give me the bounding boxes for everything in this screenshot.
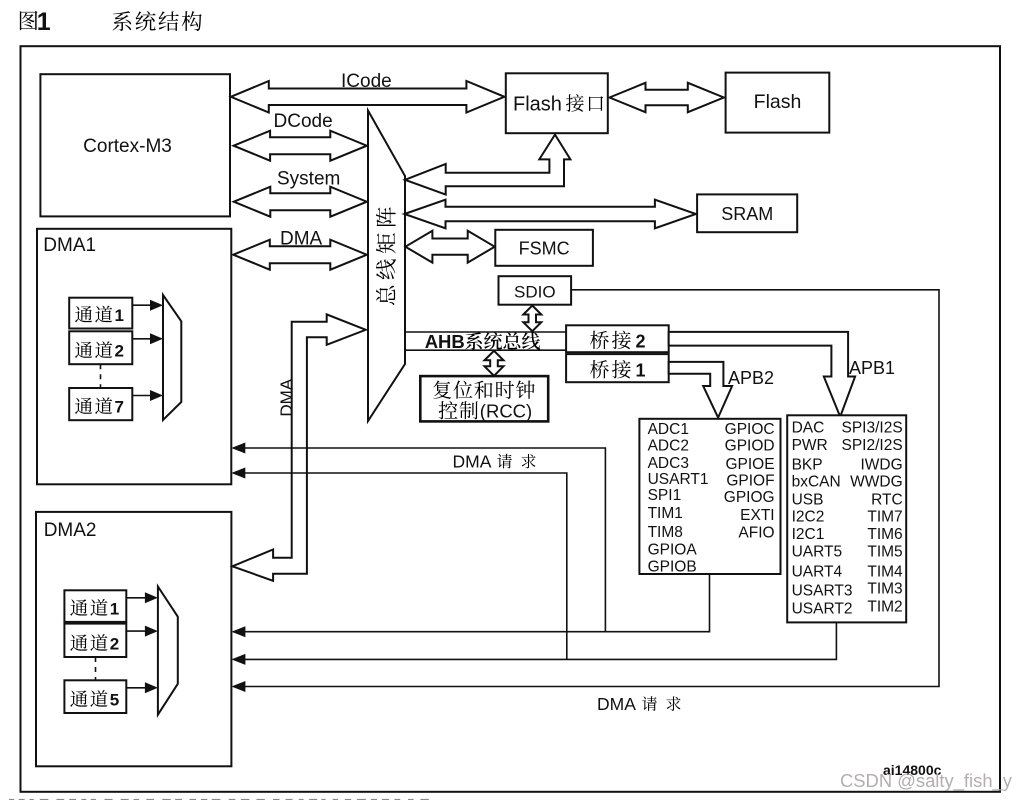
svg-text:DCode: DCode: [274, 111, 333, 132]
arrowhead DMA2 request2: [231, 654, 245, 665]
svg-text:GPIOB: GPIOB: [648, 559, 697, 576]
DCode bus arrow: [234, 131, 367, 161]
svg-text:PWR: PWR: [792, 437, 828, 454]
svg-text:APB2: APB2: [728, 368, 774, 388]
RCC vertical double arrow: [485, 351, 504, 376]
svg-text:5: 5: [110, 691, 119, 710]
wire AHB band top: [405, 331, 566, 333]
junction wire to DMA1 request2: [234, 473, 567, 659]
svg-text:UART4: UART4: [792, 564, 843, 581]
svg-text:TIM7: TIM7: [867, 509, 902, 526]
System bus arrow: [234, 187, 367, 217]
svg-text:DAC: DAC: [792, 420, 825, 437]
svg-text:USB: USB: [792, 492, 824, 509]
svg-text:7: 7: [115, 398, 124, 417]
Flash interface to Flash arrow: [610, 83, 724, 112]
arrow 通道5 to mux (DMA2): [126, 687, 147, 689]
ICode bus arrow: [231, 81, 505, 113]
box DMA2: [36, 512, 231, 766]
arrow 通道2 to mux (DMA2): [126, 630, 147, 632]
svg-text:USART2: USART2: [792, 600, 853, 617]
svg-text:GPIOE: GPIOE: [725, 456, 774, 473]
svg-text:CSDN @salty_fish_y: CSDN @salty_fish_y: [840, 770, 1013, 792]
DMA bus arrow DMA1: [233, 240, 366, 270]
svg-text:1: 1: [110, 599, 119, 618]
svg-text:Cortex-M3: Cortex-M3: [83, 136, 172, 157]
cropped caption marks at bottom: [9, 799, 14, 800]
FSMC bus arrow: [405, 231, 494, 263]
svg-text:FSMC: FSMC: [519, 239, 570, 259]
wire SDIO to right rail: [243, 290, 939, 687]
svg-text:2: 2: [110, 635, 119, 654]
label 桥接2a: [590, 331, 631, 350]
box 通道7 (DMA1): [69, 388, 132, 420]
box 通道5 (DMA2): [64, 680, 126, 713]
APB2 bus path (bridge1 down arrow): [669, 362, 732, 418]
label 系统总线: [465, 332, 540, 350]
svg-text:GPIOG: GPIOG: [724, 489, 775, 506]
svg-text:USART1: USART1: [648, 471, 709, 488]
box 桥接2: [566, 325, 669, 352]
label 接口: [566, 94, 603, 112]
svg-text:TIM5: TIM5: [867, 544, 902, 561]
svg-text:GPIOD: GPIOD: [725, 438, 775, 455]
svg-text:TIM3: TIM3: [867, 581, 902, 598]
svg-text:1: 1: [37, 8, 51, 36]
svg-text:WWDG: WWDG: [850, 473, 903, 490]
label 通道1 (DMA1): [75, 306, 112, 323]
APB1 bus path (bridge2 down arrow): [669, 332, 855, 417]
arrowhead DMA2 request3 (SDIO): [231, 681, 245, 692]
svg-text:DMA2: DMA2: [44, 520, 97, 541]
box DMA1: [37, 229, 231, 484]
svg-text:RTC: RTC: [871, 492, 903, 509]
box Flash 接口: [506, 73, 608, 133]
svg-text:AHB: AHB: [425, 331, 465, 352]
svg-text:APB1: APB1: [849, 358, 895, 378]
dashed wire DMA2 channels: [95, 657, 97, 680]
bus matrix trapezoid: [368, 111, 405, 422]
title 系统结构: [113, 11, 202, 31]
box 通道2 (DMA1): [69, 331, 132, 364]
SDIO vertical double arrow: [523, 306, 541, 332]
DMA thick bus path (bus matrix to DMA2): [232, 314, 365, 580]
wire AHB band bottom: [405, 349, 566, 351]
SRAM bus arrow: [405, 200, 696, 229]
label 通道5 (DMA2): [70, 690, 107, 707]
label 通道7 (DMA1): [75, 397, 112, 414]
svg-text:Flash: Flash: [754, 91, 802, 113]
svg-text:2: 2: [636, 331, 646, 351]
svg-text:TIM1: TIM1: [648, 505, 683, 522]
box 通道1 (DMA1): [69, 298, 132, 329]
box 桥接1: [566, 354, 669, 382]
svg-text:EXTI: EXTI: [740, 507, 774, 524]
box FSMC: [495, 230, 593, 266]
mux trapezoid DMA2: [158, 587, 178, 715]
svg-text:AFIO: AFIO: [738, 525, 774, 542]
svg-text:System: System: [277, 169, 340, 190]
svg-text:SRAM: SRAM: [721, 204, 773, 224]
arrowhead DMA2 request1: [231, 626, 245, 637]
svg-text:TIM8: TIM8: [648, 524, 683, 541]
label 通道2 (DMA1): [75, 341, 112, 358]
box SRAM: [697, 194, 797, 232]
svg-text:bxCAN: bxCAN: [792, 473, 841, 490]
svg-text:DMA: DMA: [280, 228, 323, 249]
svg-text:I2C1: I2C1: [792, 526, 825, 543]
svg-text:IWDG: IWDG: [861, 456, 903, 473]
arrow 通道7 to mux (DMA1): [132, 395, 152, 397]
svg-text:DMA: DMA: [597, 694, 636, 714]
svg-text:GPIOF: GPIOF: [726, 473, 774, 490]
label DMA (vertical): [277, 378, 296, 416]
svg-text:SDIO: SDIO: [514, 283, 556, 302]
svg-text:I2C2: I2C2: [792, 509, 825, 526]
svg-text:SPI1: SPI1: [648, 487, 682, 504]
box APB1 peripherals: [787, 415, 906, 622]
label 控制: [439, 401, 478, 419]
label 通道2 (DMA2): [70, 634, 107, 651]
box 复位和时钟控制(RCC): [420, 376, 548, 421]
box 通道2 (DMA2): [64, 624, 126, 657]
arrow 通道1 to mux (DMA2): [126, 597, 147, 599]
svg-text:DMA: DMA: [277, 378, 296, 416]
dashed wire DMA1 channels: [100, 364, 102, 388]
svg-text:DMA: DMA: [453, 452, 492, 472]
svg-text:USART3: USART3: [792, 583, 853, 600]
svg-text:GPIOA: GPIOA: [648, 542, 698, 559]
title 图1: [20, 11, 38, 30]
svg-text:SPI2/I2S: SPI2/I2S: [842, 437, 903, 454]
arrowhead DMA1 request2: [231, 468, 245, 479]
svg-text:1: 1: [115, 306, 124, 325]
box SDIO: [499, 276, 572, 305]
label 桥接1a: [590, 360, 631, 379]
svg-text:TIM2: TIM2: [867, 598, 902, 615]
svg-text:ADC1: ADC1: [648, 421, 689, 438]
svg-text:GPIOC: GPIOC: [725, 421, 775, 438]
svg-text:2: 2: [115, 342, 124, 361]
arrowhead DMA1 request1: [231, 443, 245, 454]
svg-text:ADC3: ADC3: [648, 455, 689, 472]
svg-text:DMA1: DMA1: [43, 235, 96, 256]
svg-text:Flash: Flash: [513, 94, 562, 116]
mux trapezoid DMA1: [163, 295, 181, 420]
bent arrow bus matrix to Flash interface: [405, 135, 570, 195]
svg-text:ICode: ICode: [341, 71, 392, 92]
junction wire to DMA1 request1: [234, 448, 605, 632]
box Flash: [726, 73, 830, 133]
svg-text:SPI3/I2S: SPI3/I2S: [842, 420, 903, 437]
wire APB1 to DMA request: [234, 622, 836, 659]
wire APB2 to DMA request: [234, 574, 710, 632]
svg-text:TIM4: TIM4: [867, 564, 903, 581]
box APB2 peripherals: [639, 419, 780, 574]
box 通道1 (DMA2): [64, 590, 126, 622]
bus matrix label 总线矩阵: [376, 207, 396, 305]
arrow 通道2 to mux (DMA1): [132, 338, 152, 340]
arrow 通道1 to mux (DMA1): [132, 304, 152, 306]
svg-text:ADC2: ADC2: [648, 438, 689, 455]
svg-text:(RCC): (RCC): [480, 400, 532, 421]
box Cortex-M3: [40, 74, 230, 216]
label 通道1 (DMA2): [70, 599, 107, 616]
svg-text:BKP: BKP: [792, 456, 823, 473]
label 复位和时钟: [433, 380, 534, 398]
svg-text:UART5: UART5: [792, 544, 843, 561]
svg-text:1: 1: [636, 361, 646, 381]
svg-text:TIM6: TIM6: [867, 526, 902, 543]
